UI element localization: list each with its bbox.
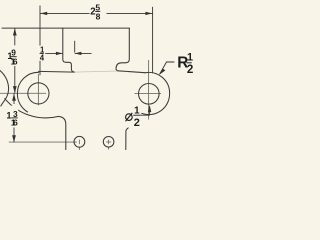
centerline small holes [9,141,77,143]
lower right diagonal and vertical [126,128,128,150]
arrow up 1 3/16 [12,94,16,101]
leader R1/2 [160,62,175,74]
small hole right [103,137,114,148]
text dia 1/2 [126,106,141,130]
web top tangent line left [39,70,75,73]
text R 1/2 [177,52,193,77]
notch right step [116,28,129,71]
tick below small hole right [108,147,110,150]
dim 1 3/16 line bottom [13,128,15,143]
hole right [139,84,160,105]
svg-text:2: 2 [187,63,193,76]
leader dia 1/2 [140,106,149,115]
svg-text:16: 16 [11,56,18,66]
text 1/4 [39,46,45,63]
dim 1/4 extension line [74,41,76,53]
arrow down 1 9/16 [13,86,17,93]
arrow down 1 3/16 [12,135,16,142]
svg-text:1: 1 [187,52,193,64]
hole left [28,83,49,104]
tick below small hole left [78,147,80,150]
dim 2 5/8 line [40,12,90,14]
svg-text:16: 16 [11,118,18,128]
arrow right of 2 5/8 [145,12,152,15]
web top faint line [75,71,118,72]
small hole left [74,136,85,147]
dim 1/4 right arrow line [75,52,92,54]
centerline vertical left hole [37,74,39,105]
bottom sweep arc [5,99,58,118]
top edge [2,27,129,29]
svg-text:2: 2 [134,117,140,129]
centerline vertical right hole [148,60,150,120]
notch left step (staircase) [63,28,75,72]
dim 1 3/16 line top [13,94,15,105]
left lobe arc (cut by image edge) [0,71,9,107]
right boss arc [142,72,170,114]
centerline horizontal main holes [0,92,46,94]
dim 1 9/16 line top [14,28,16,46]
lower left fillet and vertical [58,116,66,150]
text 2 5/8 [90,2,101,21]
left boss arc [17,72,38,112]
dim 1 9/16 line bottom [14,66,16,93]
dim 1/4 left arrow line [45,52,62,54]
arrow up 1 9/16 [13,28,17,35]
dim 2 5/8 extension line left [39,6,41,76]
text 1 9/16 [7,45,18,66]
arrow left of 2 5/8 [40,12,47,15]
web top tangent line right [118,71,145,73]
text 1 3/16 [6,106,18,128]
svg-text:4: 4 [40,53,45,62]
dim 2 5/8 extension line right [152,7,154,74]
svg-text:8: 8 [96,12,101,22]
